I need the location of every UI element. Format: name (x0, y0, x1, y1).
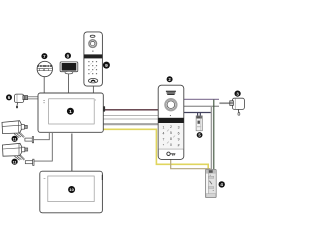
wire: gray door station right (183, 105, 219, 107)
svg-text:2: 2 (170, 125, 172, 129)
chime item 7 (37, 61, 52, 76)
svg-text:11: 11 (13, 137, 17, 141)
small TV item 8 (60, 62, 78, 74)
svg-text:1: 1 (162, 126, 164, 130)
label 11 upper (12, 136, 18, 142)
svg-text:#: # (178, 144, 180, 148)
wire: maroon monitor to door station (103, 109, 159, 111)
wire: green vertical to lock4 (213, 99, 215, 170)
label 3 (235, 91, 241, 97)
svg-text:5: 5 (170, 131, 172, 135)
wire: purple door station right (183, 98, 219, 100)
monitor U1 (item 1) (38, 93, 105, 132)
door station item 2 (158, 85, 184, 159)
wire: tan door station to lock4 (171, 159, 210, 173)
electric lock item 5 (196, 116, 202, 131)
power plug item 3 (230, 98, 245, 115)
label 1 (67, 108, 74, 115)
electric strike lock item 4 (205, 169, 216, 197)
svg-text:11: 11 (13, 160, 17, 164)
svg-text:3: 3 (178, 126, 180, 130)
svg-text:9: 9 (105, 63, 108, 69)
wire: monitor1 to monitor2 (71, 134, 73, 172)
label 5 (197, 132, 203, 138)
label 6 (6, 94, 12, 100)
wire: white pair monitor to door station (103, 115, 159, 119)
svg-text:4: 4 (220, 182, 223, 187)
svg-text:4: 4 (162, 132, 164, 136)
wire: camera1 to monitor1 (34, 133, 50, 140)
svg-text:10: 10 (69, 187, 74, 192)
handset item 9 (84, 32, 103, 86)
wire: chime to monitor1 (43, 76, 45, 93)
svg-text:1: 1 (69, 109, 72, 115)
label 2 (167, 76, 173, 82)
svg-text:8: 8 (170, 137, 172, 141)
label 9 (103, 62, 110, 69)
wire: gray vertical to lock4 (210, 106, 212, 170)
wire: power plug3 cable (219, 102, 230, 104)
wire: yellow monitor to lock4 (103, 129, 208, 171)
wire: small TV to monitor1 (68, 74, 70, 94)
svg-text:9: 9 (178, 138, 180, 142)
svg-text:6: 6 (178, 132, 180, 136)
label 7 (41, 53, 47, 59)
label 10 (68, 186, 75, 193)
label 8 (65, 53, 71, 59)
wire: gray monitor to door station (103, 123, 159, 125)
label 11 lower (12, 159, 18, 165)
camera item 11 lower (2, 143, 34, 165)
label 4 (219, 181, 225, 187)
svg-text:7: 7 (162, 138, 164, 142)
camera item 11 upper (2, 121, 34, 143)
power plug item 6 (15, 94, 28, 108)
wire: camera2 to monitor1 (34, 133, 53, 161)
wire: power plug6 cord to monitor1 (27, 97, 38, 99)
wire: handset to monitor1 (92, 86, 94, 94)
monitor U2 (item 10) (40, 171, 103, 213)
svg-text:0: 0 (170, 143, 172, 147)
wire: navy door station to lock5 (183, 113, 212, 117)
